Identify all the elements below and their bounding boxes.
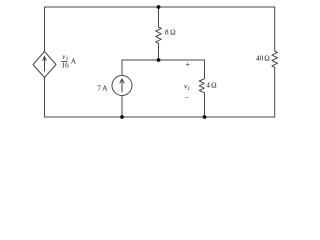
svg-text:−: − — [185, 94, 190, 103]
junction dot bottom left — [120, 115, 124, 119]
svg-text:+: + — [186, 60, 191, 69]
label v1/16 A — [61, 52, 76, 69]
junction dot mid — [157, 58, 161, 62]
svg-text:8: 8 — [165, 27, 169, 36]
wire below 4ohm — [204, 93, 206, 117]
svg-text:16: 16 — [61, 61, 69, 70]
wire 8ohm branch upper — [158, 7, 160, 27]
svg-text:Ω: Ω — [170, 27, 176, 36]
svg-text:Ω: Ω — [211, 80, 217, 89]
svg-text:7: 7 — [97, 83, 101, 92]
junction dot bottom right — [203, 115, 207, 119]
svg-text:A: A — [102, 83, 108, 92]
resistor R4 — [199, 78, 204, 93]
dependent current source D1 — [33, 52, 56, 78]
resistor R8 — [156, 27, 162, 43]
wire below 7A source — [121, 96, 123, 118]
svg-text:v1: v1 — [184, 82, 190, 93]
svg-text:A: A — [71, 56, 77, 65]
current source I1 7A — [112, 76, 132, 96]
wire right top — [274, 7, 276, 51]
junction dot top — [157, 5, 161, 9]
svg-text:40: 40 — [256, 54, 264, 63]
wire right bottom — [274, 67, 276, 117]
wire top — [45, 7, 275, 52]
svg-text:Ω: Ω — [264, 54, 270, 63]
resistor R40 — [272, 51, 278, 67]
wire 8ohm branch lower — [158, 43, 160, 60]
wire middle horizontal — [122, 60, 205, 78]
svg-text:4: 4 — [206, 80, 210, 89]
wire bottom — [45, 78, 275, 118]
